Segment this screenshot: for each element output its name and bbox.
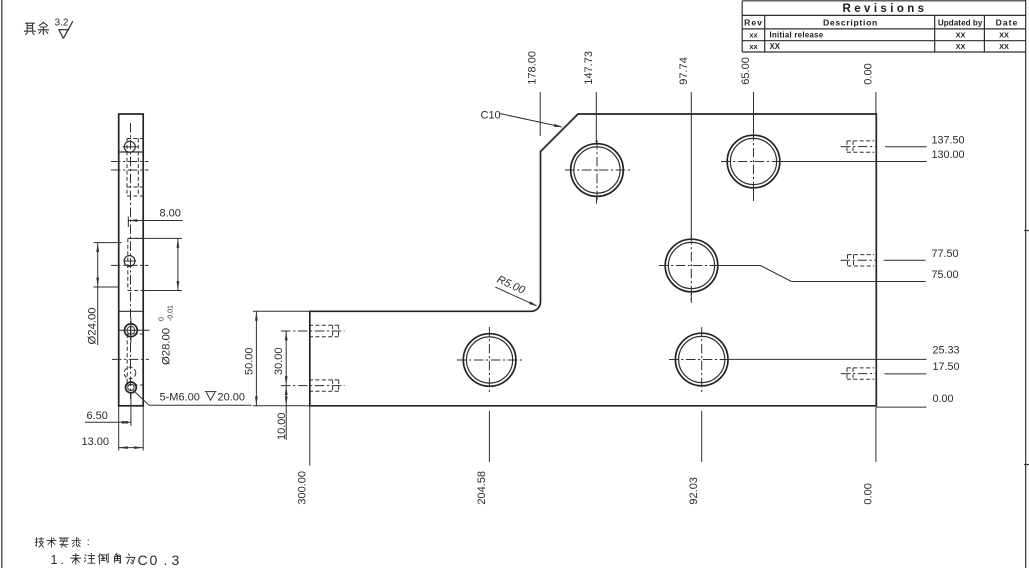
sheet right border tick upper [1024, 230, 1029, 232]
callout 77.50 text [932, 248, 959, 260]
side view hidden bore bottom (holes D,E) [127, 334, 143, 385]
svg-text:50.00: 50.00 [243, 347, 255, 375]
ordinate 92.03 extension line [701, 411, 703, 462]
side view centerline hole row A [111, 169, 149, 171]
dimension 13.00 text [82, 436, 110, 448]
callout 17.50 leader [885, 373, 927, 375]
svg-text:65.00: 65.00 [740, 57, 752, 85]
ordinate top 0.00 extension line [875, 92, 877, 114]
dimension dia 24.00 extension lines [94, 243, 122, 287]
revisions table row 2 [749, 42, 1009, 51]
ordinate 204.58 extension line [488, 411, 490, 462]
svg-text:Updated by: Updated by [938, 19, 983, 28]
text 5-M6.00 depth 20.00 [160, 391, 246, 403]
svg-text:300.00: 300.00 [296, 471, 308, 505]
front view outline with chamfer C10 and fillet R5 [310, 114, 877, 406]
side view hidden bore top (holes A,B) [127, 139, 143, 197]
hole A (147.73 / 130-row) circles [571, 144, 624, 197]
svg-text:17.50: 17.50 [933, 361, 960, 373]
dimension 50.00 text [243, 347, 255, 375]
side view centerline hole row D/E [112, 358, 149, 360]
svg-text:Rev: Rev [744, 18, 763, 28]
ordinate 65.00 extension line [753, 92, 755, 201]
callout 25.33 leader [728, 358, 927, 360]
surface roughness value 3.2 [55, 17, 69, 28]
dimension dia 28.00 line and arrows [177, 238, 180, 290]
ordinate 97.74 text [678, 57, 690, 85]
ordinate 178.00 text [527, 51, 539, 85]
svg-text:0: 0 [159, 317, 166, 321]
revisions table row 1 [749, 30, 1009, 39]
ordinate 97.74 extension line [690, 92, 692, 303]
svg-text:XX: XX [999, 30, 1009, 39]
side view hidden bore middle (hole C) [128, 238, 143, 290]
svg-text:5-M6.00: 5-M6.00 [160, 391, 200, 403]
ordinate bottom 0.00 extension line [875, 407, 877, 462]
revisions table frame [742, 1, 1025, 52]
dimension 50.00 line and arrows [255, 311, 258, 406]
svg-text:-0.01: -0.01 [168, 305, 175, 321]
dimension dia 28.00 extension lines [130, 238, 182, 290]
callout 17.50 text [933, 361, 960, 373]
svg-text:.: . [61, 553, 64, 567]
svg-text:XX: XX [956, 30, 966, 39]
side view centerline hole row C [111, 264, 149, 266]
dimension 10.00 line and arrows [285, 386, 288, 440]
side view outline [119, 114, 144, 406]
svg-text:0: 0 [150, 552, 158, 568]
ordinate 65.00 text [740, 57, 752, 85]
svg-text:3: 3 [172, 552, 180, 568]
hole B (65.00) circles [727, 135, 780, 188]
hole B centerline cross [721, 131, 780, 197]
callout 75.00 text [932, 269, 959, 281]
svg-text:6.50: 6.50 [87, 410, 108, 422]
callout 0.00 text [933, 393, 954, 405]
side view M6 end hole circle (17.50, hidden) [124, 367, 136, 379]
side view vertical axis centerline [130, 123, 132, 399]
text R5.00 [495, 274, 527, 297]
side view M6 end hole circle (137.50) [123, 141, 139, 152]
ordinate 147.73 text [583, 51, 595, 85]
svg-text:25.33: 25.33 [933, 344, 960, 356]
ordinate 300.00 extension line [309, 407, 311, 466]
svg-text:XX: XX [956, 42, 966, 51]
svg-text:.: . [164, 552, 168, 568]
hidden tapped hole right edge 17.50 [841, 368, 877, 379]
hole E centerline cross [669, 327, 728, 393]
revisions table title [843, 3, 928, 15]
callout 0.00 leader [876, 406, 926, 408]
ordinate 92.03 text [688, 477, 700, 505]
hidden tapped hole left edge lower [281, 380, 345, 391]
svg-text:130.00: 130.00 [932, 149, 965, 161]
dimension 8.00 line and arrow [128, 217, 183, 228]
svg-text:1: 1 [51, 553, 58, 567]
svg-text:13.00: 13.00 [82, 436, 110, 448]
ordinate bottom 0.00 text [862, 483, 874, 504]
surface finish symbol [58, 21, 73, 38]
svg-text:147.73: 147.73 [583, 51, 595, 85]
ordinate 300.00 text [296, 471, 308, 505]
svg-text:30.00: 30.00 [273, 347, 285, 375]
dimension dia 28.00 text with tolerance [159, 305, 175, 365]
svg-text:137.50: 137.50 [932, 134, 965, 146]
revisions table header row [744, 18, 1018, 28]
svg-text:204.58: 204.58 [476, 471, 488, 505]
svg-text:97.74: 97.74 [678, 57, 690, 85]
hidden tapped hole right edge 137.50 [841, 141, 877, 152]
ordinate 147.73 extension line [595, 92, 597, 204]
svg-text:178.00: 178.00 [527, 51, 539, 85]
note text 其余 (rest surfaces) [24, 22, 48, 34]
svg-text:0.00: 0.00 [862, 63, 874, 84]
callout 75.00 leader with jog [718, 266, 926, 282]
text C10 [481, 109, 501, 121]
ordinate 204.58 text [476, 471, 488, 505]
callout 77.50 leader [884, 259, 926, 261]
svg-text:xx: xx [749, 30, 758, 39]
leader R5.00 [495, 287, 538, 306]
hidden tapped hole right edge 77.50 [841, 255, 878, 266]
svg-text:0.00: 0.00 [862, 483, 874, 504]
leader 5-M6.00 depth 20.00 [134, 391, 252, 406]
leader C10 [500, 114, 563, 128]
side view chamfer edge line [119, 151, 144, 153]
hole D centerline cross [457, 327, 522, 393]
hole C (97.74) circles [665, 239, 718, 292]
hole E (92.03) circles [675, 333, 728, 386]
dimension dia 24.00 text [87, 307, 99, 344]
sheet right border tick lower [1024, 464, 1029, 466]
dimension dia 24.00 line and arrows [96, 243, 99, 345]
dimension 8.00 text [160, 208, 181, 220]
dimension 30.00 line and arrows [285, 331, 288, 386]
hole D (204.58) circles [463, 334, 516, 387]
dimension 6.50 [85, 394, 131, 426]
svg-text:Revisions: Revisions [843, 3, 928, 15]
svg-text:75.00: 75.00 [932, 269, 959, 281]
svg-text:Ø28.00: Ø28.00 [161, 328, 173, 365]
side view M6 left edge hole circle (lower, with leader) [125, 382, 136, 393]
svg-text:Description: Description [823, 18, 878, 28]
svg-text:Initial release: Initial release [770, 30, 824, 39]
dimension 6.50 text [87, 410, 108, 422]
ordinate 178.00 extension line [539, 92, 541, 136]
svg-text:3.2: 3.2 [55, 17, 69, 28]
svg-text:C10: C10 [481, 109, 501, 121]
note 1. 未注倒角为C0.3 [51, 552, 180, 568]
note 技术要求: [35, 538, 88, 548]
side view step edge line [119, 310, 144, 312]
svg-text:xx: xx [749, 42, 758, 51]
side view M6 left edge hole circle (30.00 upper) [119, 318, 150, 343]
callout 130.00 text [932, 149, 965, 161]
callout 130.00 leader [779, 161, 927, 163]
side view centerline hole row B [111, 161, 149, 163]
svg-text:20.00: 20.00 [218, 391, 246, 403]
dimension 13.00 [119, 406, 144, 450]
svg-text:Ø24.00: Ø24.00 [87, 307, 99, 344]
svg-text:10.00: 10.00 [276, 412, 288, 440]
callout 137.50 leader [885, 146, 927, 148]
hole C centerline cross [659, 235, 719, 302]
dimension 50.00 extension lines [253, 311, 310, 406]
sheet left border [1, 0, 3, 568]
svg-text:77.50: 77.50 [932, 248, 959, 260]
callout 25.33 text [933, 344, 960, 356]
callout 137.50 text [932, 134, 965, 146]
ordinate top 0.00 text [862, 63, 874, 84]
svg-text:0.00: 0.00 [933, 393, 954, 405]
svg-text:C: C [138, 552, 148, 568]
svg-text:8.00: 8.00 [160, 208, 181, 220]
dimension 10.00 text [276, 412, 288, 440]
dimension 30.00 text [273, 347, 285, 375]
sheet right border [1025, 0, 1027, 568]
side view M6 end hole circle (77.50) [124, 256, 137, 267]
svg-text:Date: Date [996, 18, 1019, 28]
svg-text:92.03: 92.03 [688, 477, 700, 505]
svg-text:XX: XX [770, 42, 781, 51]
hidden tapped hole left edge upper (30.00) [281, 325, 345, 336]
svg-text:XX: XX [999, 42, 1009, 51]
hole A centerline cross [565, 140, 630, 202]
